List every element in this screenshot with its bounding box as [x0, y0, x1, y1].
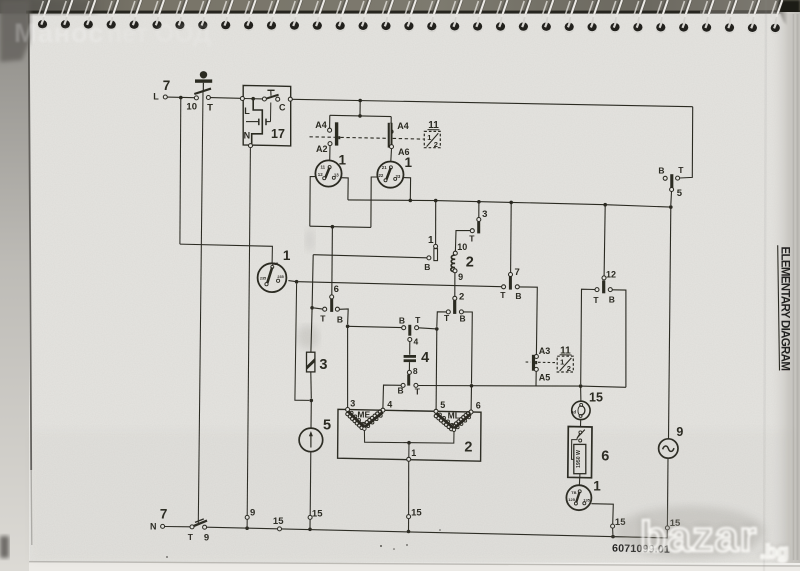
wire corner down to contact 6 T: [312, 255, 313, 308]
thermostat 1 bottom circle: [566, 485, 591, 510]
node mid bus 23: [409, 199, 413, 203]
contact 1 hollow bar: [434, 249, 438, 261]
box 17 bottom terminal: [249, 144, 253, 148]
coil 2 winding: [451, 255, 455, 271]
contact 1 terminal circle: [434, 244, 438, 248]
node bottom bus thermostat: [611, 535, 615, 539]
wire heater element down: [579, 474, 581, 478]
winding ML vertex: [452, 428, 455, 431]
box 17 right terminal: [288, 97, 292, 101]
wire contact6 B to node 3: [339, 309, 348, 324]
thermostat right internals: [389, 166, 392, 169]
terminal A4 right: [389, 130, 393, 134]
wire junction down to resistor 3: [311, 308, 312, 352]
wire coil 2 to contact 2: [454, 273, 456, 297]
timer box 17 outline: [243, 85, 291, 145]
wire cap upper B to node 3: [348, 326, 402, 327]
node 385 winding 6: [470, 384, 474, 388]
capacitor 4 terminal 8: [407, 370, 411, 374]
scan speckles bottom: [166, 529, 441, 558]
terminal N: [161, 524, 165, 528]
thermostat 1 internals: [271, 265, 274, 268]
wire mid bus to contact 3: [478, 202, 480, 218]
capacitor 4 lower contact: [407, 374, 410, 385]
wire L to switch 10: [167, 96, 194, 99]
wire node down to winding terminal 5: [435, 329, 438, 409]
wire down to A4 right: [390, 117, 392, 130]
contact 2 terminals T B: [446, 310, 450, 314]
top-right dark corner blob: [778, 0, 800, 30]
terminal 15 under thermostat bottom: [611, 524, 615, 528]
node winding 3 branch: [346, 325, 350, 329]
box 17 switch actuator: [270, 91, 272, 96]
coil 2 terminal 10: [453, 251, 457, 255]
node bottom bus motor: [308, 528, 312, 532]
bottom bus wire: [207, 527, 668, 538]
wire A2 to thermostat left: [329, 146, 331, 161]
wire thermostat1 to node A: [288, 281, 296, 282]
wire A5 down to 385 line: [535, 371, 537, 385]
dashed line to cam box right: [526, 361, 531, 363]
thermostat switch 1 left circle: [315, 160, 341, 186]
wire cap lower T along 385 to right: [418, 386, 626, 388]
wire to bottom bus: [612, 528, 614, 535]
switch contact 10: [194, 96, 198, 100]
wire center to terminal 1: [408, 443, 410, 458]
wire cap upper T to node: [419, 328, 437, 329]
wire L junction down: [179, 98, 182, 245]
test line T vertical to bottom switch: [198, 92, 203, 523]
box 17 internal junction: [251, 97, 255, 101]
node mid bus contact1: [434, 199, 438, 203]
terminal 15 under AC source: [665, 526, 669, 530]
heater box 6 outline: [568, 427, 592, 478]
node mid bus contact12: [603, 203, 607, 207]
node A thermostat1 right: [295, 280, 299, 284]
wire to bottom bus: [408, 519, 410, 530]
node bottom bus 9: [245, 526, 249, 530]
bazar.bg watermark: [615, 506, 789, 563]
terminal 15 on bus: [278, 527, 282, 531]
right page edge band: [770, 12, 800, 563]
paper smudge left of resistor: [297, 325, 319, 349]
contact 6 terminals T B: [323, 307, 327, 311]
left backing strip: [0, 12, 29, 571]
contact A5: [534, 367, 538, 371]
wire terminal 1 down to 15: [408, 461, 410, 514]
wire right vertical to AC source: [669, 207, 671, 439]
bottom switch blade: [191, 521, 207, 527]
wire cap lower B to winding terminal 4: [383, 385, 401, 408]
wire 9 stub: [246, 519, 248, 527]
terminal 15 under motor box: [407, 515, 411, 519]
AC source 9: [659, 439, 678, 458]
wire thermostat right exit 22: [371, 177, 378, 227]
motor box 2 outline: [338, 409, 481, 461]
wire thermostat left exit 13 to mid bus: [341, 178, 348, 200]
terminal A2: [328, 142, 332, 146]
push button actuator: [200, 71, 207, 78]
wire corner to thermostat1 top: [180, 244, 273, 263]
wire lamp to heater box 6: [580, 420, 582, 427]
wire contact2 B down to node6: [463, 312, 472, 384]
node mid bus contact7: [509, 201, 513, 205]
thermostat 1 left circle: [258, 263, 287, 292]
wire thermostat bottom exit right: [591, 504, 613, 524]
winding terminal 1: [407, 457, 411, 461]
switch 10-T blade: [194, 89, 211, 94]
capacitor 4 upper contact: [402, 326, 406, 330]
wire AC to bottom bus corner: [613, 530, 667, 538]
wire top bus box17 to corner right: [292, 99, 692, 106]
dashed actuating line defrost: [310, 136, 335, 139]
faint vertical crease right side: [764, 0, 766, 571]
wire bus226 down to contact 6: [331, 227, 334, 295]
contact bar A4-A2: [335, 122, 338, 145]
wire down to A4 left: [329, 115, 331, 128]
bottom page edge strip: [0, 563, 800, 571]
contact 2 bar: [453, 300, 456, 314]
wire terminal 4 to plates: [409, 342, 411, 355]
wire A4 branch vertical: [359, 101, 361, 116]
box 17 internal wire to switch: [244, 98, 262, 100]
wire line E from node A down: [295, 284, 309, 401]
bottom switch contact T: [190, 525, 194, 529]
node L junction: [179, 96, 183, 100]
capacitor 4 terminal 4: [408, 338, 412, 342]
left page edge shadow line: [29, 13, 32, 470]
winding ME vertex: [363, 427, 366, 430]
contact 2 terminal circle: [453, 296, 457, 300]
wire motor 5 down to 15: [309, 452, 312, 516]
wire node down to motor 5: [310, 400, 312, 428]
node capacitor top T: [435, 327, 439, 331]
relay contact 5 circles B T: [663, 176, 667, 180]
wire box17 N to bottom node 9: [247, 148, 250, 516]
thermostat bottom internals: [578, 490, 581, 493]
coil 2 terminal 9: [453, 269, 457, 273]
contact 7 bar: [509, 276, 512, 289]
motor pump 5: [299, 428, 323, 452]
box 17 internal meander path: [252, 100, 263, 144]
wire thermostat left exit 12: [310, 177, 316, 227]
wire resistor to node B: [310, 372, 313, 399]
resistor 3: [307, 352, 315, 372]
contact 3 terminal circle: [477, 218, 481, 222]
wire winding vertices to terminal 1: [364, 430, 454, 443]
winding terminal 6: [469, 410, 473, 414]
box 17 internal switch contacts: [262, 97, 266, 101]
node A4 branch split: [358, 114, 362, 118]
box 17 internal capacitor symbol: [246, 121, 258, 123]
contact 7 terminals T B: [502, 285, 506, 289]
wire mid bus to contact 7: [510, 202, 513, 272]
wire bus 226 between thermostats: [310, 226, 371, 227]
terminal 9 above bus: [245, 515, 249, 519]
wire A6 to thermostat right: [390, 149, 393, 162]
capacitor 4 plates: [404, 355, 416, 358]
node motor branch: [310, 399, 314, 403]
wire mid bus 200: [348, 200, 671, 207]
winding terminal 5: [434, 409, 438, 413]
wire node385 down to lamp 15: [580, 386, 582, 401]
contact A3-A5 bar: [532, 355, 535, 371]
paper smudge above resistor area: [305, 228, 315, 252]
wire N to switch: [165, 526, 190, 528]
wire contact6 T to junction: [314, 308, 323, 309]
contact 6 bar: [330, 299, 333, 312]
wire contact3 T to coil 2: [455, 231, 470, 252]
bottom switch contact 9: [203, 525, 207, 529]
contact bar A4-A6 double: [388, 123, 393, 148]
node bottom bus motor box: [407, 530, 411, 534]
contact 5 bar: [670, 174, 673, 188]
contact 3 terminal T: [470, 229, 474, 233]
wire thermostat right exit 23: [403, 178, 410, 201]
wire switch T to box 17: [210, 97, 240, 100]
box 17 left terminal: [240, 97, 244, 101]
terminal A4 left: [328, 128, 332, 132]
motor 5 arrow: [310, 435, 312, 448]
node 385 box6 chain: [579, 384, 583, 388]
wire node down to winding terminal 6: [470, 386, 472, 410]
wire contact1 B to left corner: [313, 255, 427, 258]
terminal A6: [390, 145, 394, 149]
lamp 15 circle: [572, 401, 590, 419]
wire to bottom bus node: [309, 519, 311, 527]
heater box 6 element rect: [574, 444, 586, 473]
wire line D thermostat1 to contact7 T: [298, 282, 501, 287]
contact 3 bar: [477, 222, 480, 234]
contact 1 terminal B: [427, 256, 431, 260]
wire top-right corner down to contact 5: [680, 107, 693, 178]
thermostat switch 1 right circle: [377, 162, 403, 188]
svg-text:.bg: .bg: [760, 542, 789, 563]
contact A3: [534, 355, 538, 359]
winding terminal 3: [346, 408, 350, 412]
contact 12 terminals T B: [595, 288, 599, 292]
contact 12 bar: [602, 280, 605, 293]
terminal L: [163, 95, 167, 99]
wire AC source down: [666, 458, 669, 526]
wire node 3 down to winding terminal 3: [347, 326, 349, 407]
wire contact 5 to mid bus: [670, 192, 673, 206]
wire mid bus to contact 12: [604, 205, 605, 276]
node mid bus right vertical: [669, 205, 673, 209]
bottom-left dark blob: [0, 536, 9, 558]
contact 7 terminal circle: [509, 273, 513, 277]
top binding band: [0, 0, 800, 14]
wire contact2 T down to node: [437, 312, 447, 327]
top dark edge line of page: [26, 11, 800, 14]
winding terminal 4: [381, 408, 385, 412]
spiral binding wires and holes: [38, 0, 782, 33]
terminal 15 under motor: [308, 515, 312, 519]
contact 5 terminal circle: [670, 188, 674, 192]
wire mid bus to contact 1: [435, 201, 437, 245]
heater box 6 thermal switch: [579, 431, 582, 434]
contact 12 terminal circle: [602, 276, 606, 280]
lamp 15 internals: [580, 403, 583, 406]
node contact 6 T junction: [310, 306, 314, 310]
contact 6 terminal circle: [330, 295, 334, 299]
node top bus A4 branch: [358, 99, 362, 103]
switch contact T: [206, 96, 210, 100]
top-left corner dark region: [0, 0, 30, 62]
box 17 internal switch blade: [264, 95, 279, 100]
wire plates to terminal 8: [408, 362, 410, 370]
svg-text:bazar: bazar: [640, 513, 757, 561]
node mid bus contact3: [477, 200, 481, 204]
wire box6 to thermostat bottom: [578, 478, 580, 485]
heater box 6 bypass wire: [572, 440, 578, 460]
thermostat left internals: [328, 166, 331, 169]
wire contact7 B to A3: [519, 287, 537, 355]
node bus 226 branch contact 6: [331, 225, 335, 229]
ELEMENTARY DIAGRAM side text: [779, 247, 791, 371]
wire A4 branch horizontal: [330, 115, 391, 116]
node winding center: [407, 441, 411, 445]
door heater box around contact 12: [581, 289, 595, 384]
